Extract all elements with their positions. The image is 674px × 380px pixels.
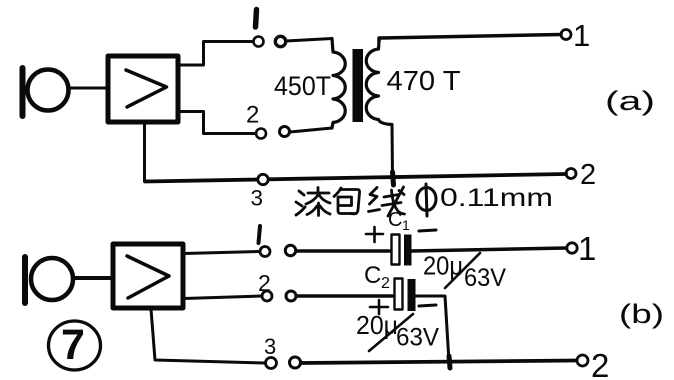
figure number 7 xyxy=(49,321,101,370)
svg-text:(b): (b) xyxy=(619,299,664,329)
svg-text:3: 3 xyxy=(264,334,276,359)
slash C2 rating xyxy=(369,314,413,351)
junction secondary-bottom rail xyxy=(393,172,394,185)
svg-text:63V: 63V xyxy=(396,324,439,352)
wire terminal 1 to transformer primary top xyxy=(286,39,332,42)
capacitor C1 plus sign xyxy=(366,227,383,242)
svg-text:450T: 450T xyxy=(274,71,331,101)
svg-text:63V: 63V xyxy=(464,264,506,292)
wire secondary bottom lead down xyxy=(391,125,395,179)
wire terminal 1 to capacitor C1 xyxy=(296,249,391,252)
svg-text:470 T: 470 T xyxy=(387,65,461,96)
svg-text:C: C xyxy=(388,209,402,231)
wire amp bottom to terminal 3 (b) xyxy=(151,309,265,363)
note hanzi 包 (bao) xyxy=(334,188,360,214)
svg-text:1: 1 xyxy=(578,230,596,267)
output terminal 1 (b) xyxy=(567,243,577,253)
terminal 3 on rail (a) xyxy=(258,174,268,184)
wire amp to terminal 2 (b) xyxy=(184,296,262,299)
wire amp output to terminal 1 (a) xyxy=(179,42,253,66)
microphone MIC-a xyxy=(23,68,69,116)
svg-text:1: 1 xyxy=(573,18,590,53)
note phi symbol xyxy=(417,184,436,216)
wire terminal 2 to transformer primary bottom xyxy=(290,128,332,132)
wire C1 to output 1 (b) xyxy=(412,248,567,251)
transformer T1 primary coil 450T xyxy=(332,39,345,129)
label 1 (a row1) xyxy=(256,10,257,28)
capacitor C2 plus sign xyxy=(370,300,388,314)
wire C2 to junction xyxy=(416,296,450,362)
wire amp output to terminal 2 (a) xyxy=(179,112,256,134)
capacitor C2 xyxy=(395,279,416,312)
svg-text:7: 7 xyxy=(61,321,85,369)
wire secondary top to output 1 (a) xyxy=(379,35,561,42)
terminal 1 pair (b) xyxy=(260,245,296,256)
output terminal 2 (b) xyxy=(577,355,588,366)
svg-text:20μ: 20μ xyxy=(356,310,398,340)
svg-text:(a): (a) xyxy=(605,86,655,116)
terminal 3 pair (b) xyxy=(266,357,301,369)
amplifier U1 (a) xyxy=(108,56,178,122)
capacitor C1 minus sign xyxy=(419,230,436,231)
slash C1 rating xyxy=(445,253,480,288)
microphone MIC-b xyxy=(25,257,73,303)
junction C2 rail (b) xyxy=(449,356,450,368)
output terminal 1 (a) xyxy=(561,30,571,40)
wire amp to terminal 1 (b) xyxy=(184,252,260,254)
note hanzi 漆 (qi) xyxy=(296,188,330,216)
svg-text:2: 2 xyxy=(246,102,259,129)
svg-text:2: 2 xyxy=(381,275,390,292)
capacitor C2 minus sign xyxy=(419,305,436,306)
svg-text:0.11mm: 0.11mm xyxy=(440,184,553,212)
wire terminal 2 to capacitor C2 xyxy=(297,294,394,297)
wire mic to amplifier (a) xyxy=(68,87,106,90)
wire mic to amplifier (b) xyxy=(73,276,112,280)
transformer core xyxy=(353,49,364,122)
svg-text:C: C xyxy=(364,262,381,289)
transformer T1 secondary coil 470T xyxy=(366,41,392,125)
wire amp bottom to ground rail (a) xyxy=(145,121,151,181)
svg-text:1: 1 xyxy=(402,217,410,233)
terminal 2 pair (b) xyxy=(262,291,296,301)
terminal 2 pair (a) xyxy=(256,127,290,139)
amplifier U2 (b) xyxy=(113,244,183,308)
svg-text:2: 2 xyxy=(580,159,596,191)
note hanzi 线 (xian) xyxy=(369,187,405,216)
bottom rail (a) xyxy=(145,174,566,182)
label 1 (b row1) xyxy=(259,226,261,243)
output terminal 2 (a) xyxy=(566,169,576,179)
terminal 1 pair (a) xyxy=(254,36,286,46)
capacitor C1 xyxy=(392,235,412,266)
svg-text:3: 3 xyxy=(251,186,264,211)
svg-text:2: 2 xyxy=(591,347,609,380)
bottom rail (b) to output 2 xyxy=(301,361,576,364)
